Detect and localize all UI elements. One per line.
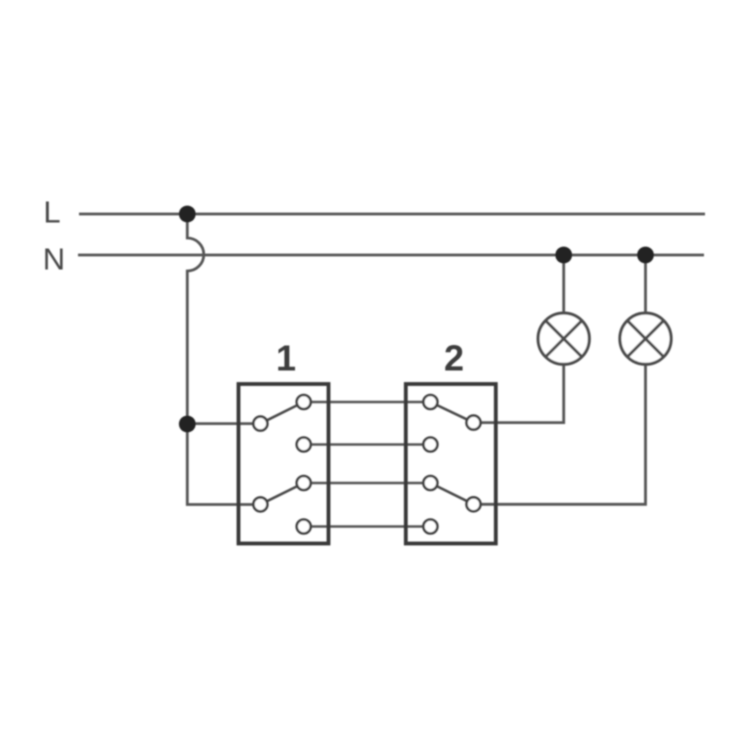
switch 1 terminal row 3: [297, 476, 311, 490]
switch 2 terminal row 1: [423, 395, 437, 409]
junction dot at switch 1 feed: [179, 416, 196, 433]
wire link second terminals between switches: [304, 443, 431, 446]
switch 1 bottom common terminal: [253, 497, 267, 511]
lamp 1: [538, 313, 589, 364]
wire link bottom terminals between switches: [304, 525, 431, 528]
wire link third terminals between switches: [304, 482, 431, 485]
wire feed to switch 1 top common: [187, 422, 260, 425]
wire switch 2 top common to lamp 1: [474, 364, 564, 422]
switch 2 top common terminal: [467, 416, 481, 430]
switch 2 bottom common terminal: [467, 497, 481, 511]
junction dot on N line at lamp 2: [637, 247, 654, 264]
wire N to lamp 2: [644, 255, 647, 313]
switch 2 terminal row 4: [423, 520, 437, 534]
switch 2 terminal row 3: [423, 476, 437, 490]
wire L line: [79, 213, 705, 216]
wire N to lamp 1: [562, 255, 565, 313]
switch 2 bottom arm: [430, 483, 473, 504]
wire link top terminals between switches: [304, 401, 431, 404]
wire N line: [78, 254, 704, 257]
switch 1 terminal row 1: [297, 395, 311, 409]
switch box 2: [406, 384, 496, 544]
switch 2 terminal row 2: [423, 438, 437, 452]
svg-text:N: N: [43, 242, 65, 277]
switch 2 top arm: [430, 402, 473, 423]
svg-text:1: 1: [276, 337, 296, 378]
switch 1 top arm: [260, 402, 303, 424]
switch box 1: [239, 384, 329, 544]
junction dot on N line at lamp 1: [555, 247, 572, 264]
svg-text:L: L: [43, 195, 60, 230]
lamp 2: [620, 313, 671, 364]
wire feed down and to switch 1 bottom common: [187, 424, 260, 505]
junction dot on L line: [179, 206, 196, 223]
switch 1 terminal row 4: [297, 520, 311, 534]
wire feed drop from L with hop over N: [187, 214, 203, 424]
svg-text:2: 2: [444, 337, 464, 378]
wire switch 2 bottom common to lamp 2: [474, 364, 646, 504]
switch 1 terminal row 2: [297, 438, 311, 452]
switch 1 bottom arm: [260, 483, 303, 504]
switch 1 top common terminal: [253, 417, 267, 431]
